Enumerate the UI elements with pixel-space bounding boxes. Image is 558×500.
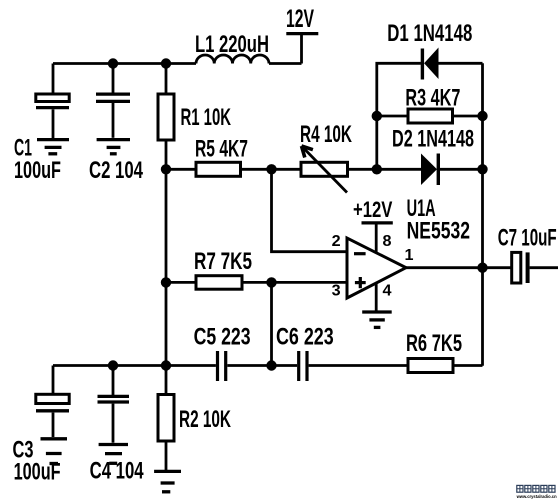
ground op-amp: [362, 312, 392, 327]
svg-text:D1 1N4148: D1 1N4148: [387, 20, 472, 47]
svg-text:NE5532: NE5532: [407, 218, 470, 245]
wire diode block left vertical: [377, 63, 421, 169]
power symbol +12V bar: [362, 221, 393, 224]
junction dot C5 C6: [266, 360, 276, 370]
wire C1 stub: [52, 64, 55, 95]
junction dot bus R5 row: [161, 164, 171, 174]
svg-text:D2 1N4148: D2 1N4148: [392, 126, 474, 153]
svg-text:8: 8: [383, 233, 392, 250]
resistor R2: [158, 395, 174, 442]
capacitor C1: [36, 94, 69, 138]
svg-text:R5 4K7: R5 4K7: [195, 136, 248, 163]
resistor R7: [196, 276, 242, 290]
junction dot rail C2: [108, 58, 118, 68]
wire C4 stub: [112, 366, 115, 396]
resistor R1: [158, 94, 174, 140]
wire pin 4: [375, 284, 378, 311]
wire top 12V rail left segment: [53, 62, 196, 65]
ground C4: [99, 445, 128, 464]
junction dot D2 right: [477, 164, 487, 174]
wire pin 1 output: [406, 266, 512, 269]
svg-text:R6 7K5: R6 7K5: [406, 330, 462, 357]
wire R4 to diode block: [348, 168, 377, 171]
svg-text:C6 223: C6 223: [276, 324, 334, 351]
wire D2 anode: [377, 168, 421, 171]
wire pin2 branch: [272, 169, 348, 251]
svg-text:C7 10uF: C7 10uF: [498, 225, 557, 252]
junction dot R3 left: [372, 111, 382, 121]
svg-text:R1 10K: R1 10K: [181, 104, 232, 131]
svg-text:R4 10K: R4 10K: [300, 121, 352, 148]
svg-text:12V: 12V: [286, 5, 314, 33]
resistor R6: [408, 359, 453, 373]
wire right vertical: [481, 63, 484, 366]
svg-text:L1 220uH: L1 220uH: [195, 31, 269, 58]
svg-text:2: 2: [332, 233, 341, 250]
wire left bus: [165, 140, 168, 366]
svg-text:C4 104: C4 104: [90, 458, 144, 485]
ground C2: [97, 140, 130, 154]
ground R2: [154, 471, 181, 491]
capacitor C6: [299, 351, 408, 381]
svg-text:+12V: +12V: [353, 197, 393, 222]
wire 12V supply drop: [300, 34, 303, 64]
junction dot output: [477, 263, 487, 273]
svg-text:100uF: 100uF: [14, 157, 61, 184]
diode D1: [421, 48, 483, 80]
op-amp minus sign: [354, 252, 366, 255]
wire top 12V rail right segment: [269, 62, 302, 65]
resistor R5: [196, 162, 241, 176]
ground C1: [37, 140, 69, 154]
wire R1 stub: [165, 64, 168, 95]
potentiometer arrow R4: [302, 146, 348, 193]
ground C3: [41, 439, 68, 464]
junction dot bus R7 row: [161, 277, 171, 287]
capacitor C7: [512, 252, 558, 283]
junction dot D2 left: [372, 164, 382, 174]
capacitor C5: [166, 351, 297, 381]
junction dot R3 right: [477, 111, 487, 121]
wire C3 drop: [52, 366, 55, 395]
capacitor C2: [96, 94, 130, 138]
resistor R3: [408, 109, 453, 123]
svg-text:R7 7K5: R7 7K5: [194, 248, 252, 275]
svg-text:1: 1: [405, 247, 414, 264]
wire R3 row right: [453, 115, 483, 118]
wire R2 stub: [165, 366, 168, 395]
junction dot rail R1: [161, 58, 171, 68]
svg-text:4: 4: [383, 283, 392, 300]
watermark logo: [516, 485, 557, 499]
diode D2: [421, 154, 483, 186]
svg-text:3: 3: [332, 283, 341, 300]
junction dot C4 top: [108, 360, 118, 370]
wire R7 left: [166, 281, 196, 284]
svg-text:C5 223: C5 223: [194, 324, 251, 351]
svg-text:R3 4K7: R3 4K7: [405, 85, 460, 112]
capacitor C4: [98, 396, 130, 442]
wire R6 right to vertical: [453, 364, 483, 367]
op-amp U1A: [347, 238, 406, 298]
svg-text:www.crystalradio.cn: www.crystalradio.cn: [516, 494, 557, 499]
capacitor C3: [36, 394, 69, 437]
resistor R4: [301, 162, 348, 176]
wire bottom row left: [53, 364, 166, 367]
junction dot bus bottom row: [161, 360, 171, 370]
wire pin3 down to C5 C6 junction: [270, 282, 273, 365]
power symbol 12V bar: [286, 32, 318, 35]
svg-text:C2 104: C2 104: [89, 157, 143, 184]
wire R3 row left: [377, 115, 408, 118]
svg-text:R2 10K: R2 10K: [179, 406, 231, 433]
wire R7 to pin3: [242, 281, 347, 284]
wire pin 8: [375, 225, 378, 254]
junction dot pin2 branch: [266, 164, 276, 174]
op-amp plus sign: [355, 277, 366, 288]
wire R5 to R4: [241, 168, 302, 171]
wire R2 bottom: [165, 441, 168, 470]
junction dot pin3 branch: [266, 277, 276, 287]
svg-text:100uF: 100uF: [14, 459, 61, 486]
inductor L1: [196, 55, 269, 64]
wire R5 left: [166, 168, 196, 171]
wire C2 stub: [112, 64, 115, 93]
